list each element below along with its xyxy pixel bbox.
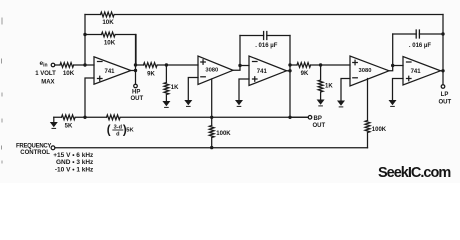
- svg-text:ein: ein: [40, 60, 48, 68]
- svg-text:SeekIC.com: SeekIC.com: [378, 165, 450, 181]
- junction dot U2 out: [238, 64, 241, 67]
- resistor R11 (3-d)/d 5K: [85, 115, 308, 120]
- U1 minus mark: [98, 61, 103, 63]
- svg-text:9K: 9K: [301, 71, 309, 77]
- node A junction dot: [83, 33, 86, 36]
- ground (U4 minus): [337, 101, 345, 106]
- svg-text:10K: 10K: [102, 19, 114, 26]
- terminal BP OUT: [308, 116, 312, 120]
- ground (R10 5K): [53, 117, 55, 122]
- svg-text:GND • 3 kHz: GND • 3 kHz: [56, 159, 94, 166]
- svg-text:5K: 5K: [126, 127, 134, 133]
- svg-text:(: (: [107, 124, 111, 136]
- wire BP bus to terminal: [290, 116, 308, 118]
- resistor R4 9K: [144, 63, 158, 68]
- svg-text:1K: 1K: [171, 85, 179, 91]
- wire top feedback rail: [85, 14, 443, 16]
- wire frequency control line: [55, 147, 368, 149]
- U3 minus mark: [253, 61, 258, 63]
- wire U4 - input bracket to ground: [341, 79, 350, 101]
- U2 minus mark: [201, 76, 206, 78]
- wire second feedback rail: [85, 35, 136, 65]
- ground (R5): [162, 101, 170, 106]
- op-amp U1 741: [94, 57, 131, 84]
- wire U3 out to R7: [290, 64, 350, 66]
- svg-text:MAX: MAX: [41, 80, 54, 86]
- capacitor C1 .016 uF top wire: [240, 35, 290, 37]
- U5 minus mark: [407, 61, 412, 63]
- svg-text:CONTROL: CONTROL: [20, 150, 50, 156]
- svg-text:-10 V • 1 kHz: -10 V • 1 kHz: [55, 167, 94, 174]
- svg-text:100K: 100K: [216, 131, 231, 137]
- summing node junction dot: [83, 63, 86, 66]
- junction dot U4 out: [391, 64, 394, 67]
- junction dot U1 out at tip: [134, 69, 137, 72]
- capacitor C1 plates: [264, 32, 267, 40]
- junction dot bias on BP bus: [210, 116, 213, 119]
- wire U2 - input bracket to ground: [188, 78, 198, 101]
- svg-text:HP: HP: [132, 90, 140, 96]
- svg-text:1 VOLT: 1 VOLT: [35, 71, 56, 77]
- node B junction dot: [165, 63, 168, 66]
- wire input to R3: [55, 64, 60, 66]
- svg-text:741: 741: [411, 69, 422, 75]
- junction dot divider node: [83, 116, 86, 119]
- wire U1 + input bracket to divider node: [85, 78, 94, 117]
- resistor R7 9K: [297, 63, 311, 68]
- U3 plus mark: [253, 77, 258, 82]
- wire U5 tip: [441, 70, 444, 72]
- resistor R5 1K (to ground): [164, 65, 169, 101]
- junction dot U3 out upper: [288, 63, 291, 66]
- wire U5 + input bracket to ground: [393, 79, 404, 101]
- wire U1 output vertical (feedback / HP tap): [135, 35, 137, 85]
- svg-text:100K: 100K: [372, 127, 387, 133]
- input terminal e_in: [51, 63, 55, 67]
- wire U4 bias input down: [367, 79, 369, 121]
- svg-text:741: 741: [257, 69, 268, 75]
- op-amp U5 741: [403, 57, 441, 86]
- op-amp U4 3080: [350, 56, 389, 86]
- svg-text:OUT: OUT: [130, 96, 143, 102]
- scan noise specks left edge: [1, 18, 4, 163]
- wire summing node into op-amp U1: [74, 64, 94, 66]
- wire U3 + input bracket to ground: [239, 79, 249, 100]
- wire U3 output vertical: [289, 36, 291, 118]
- svg-text:10K: 10K: [104, 40, 116, 47]
- svg-text:1K: 1K: [325, 84, 333, 90]
- U5 plus mark: [407, 76, 412, 81]
- resistor R2 10K (inner feedback): [102, 32, 116, 37]
- U1 plus mark: [98, 76, 103, 81]
- svg-text:. 016 µF: . 016 µF: [255, 43, 277, 49]
- resistor R8 1K (to ground): [318, 65, 323, 100]
- resistor R10 5K: [54, 115, 85, 120]
- wire U2 output to U3: [233, 36, 249, 71]
- svg-text:OUT: OUT: [438, 100, 451, 106]
- terminal FREQUENCY CONTROL: [51, 146, 55, 150]
- wire U4 output to U5: [389, 34, 403, 71]
- svg-text:OUT: OUT: [313, 123, 326, 129]
- junction dot U3 out tip: [288, 69, 291, 72]
- svg-text:LP: LP: [441, 92, 449, 98]
- ground (U5 plus): [389, 100, 397, 105]
- node C junction dot: [319, 63, 322, 66]
- junction dot U5 out tip: [441, 69, 444, 72]
- svg-text:+15 V • 6 kHz: +15 V • 6 kHz: [53, 152, 94, 159]
- svg-text:BP: BP: [314, 116, 322, 122]
- svg-text:. 016 µF: . 016 µF: [409, 43, 431, 49]
- junction dot C2 on right vertical: [441, 32, 444, 35]
- wire left drop from top rail to node A: [84, 15, 86, 35]
- junction dot R6 on control line: [210, 146, 213, 149]
- svg-text:5K: 5K: [65, 123, 73, 129]
- junction dot U1 out upper: [134, 63, 137, 66]
- U4 minus mark: [353, 77, 358, 79]
- wire U1 out to R4: [136, 64, 199, 66]
- resistor R1 10K (outer feedback): [101, 12, 115, 17]
- ground (U3 plus): [235, 100, 243, 105]
- resistor R6 100K (U2 bias): [209, 126, 214, 148]
- resistor R3 10K (input): [60, 63, 74, 68]
- wire U1 output tip to vertical: [131, 70, 136, 72]
- junction dot U3 out on BP bus: [288, 116, 291, 119]
- svg-text:d: d: [116, 132, 120, 138]
- svg-text:9K: 9K: [147, 72, 155, 78]
- svg-text:741: 741: [104, 69, 115, 75]
- value label (3-d)/d 5K (R11): [107, 124, 135, 137]
- ground (U2 minus): [184, 100, 192, 105]
- wire node A down to summing node: [84, 35, 86, 66]
- wire U3 output tip: [287, 70, 291, 72]
- capacitor C2 .016 uF top wire: [393, 33, 443, 35]
- wire U5 output right vertical: [442, 15, 444, 85]
- ground (R8): [317, 100, 325, 105]
- svg-text:3080: 3080: [359, 68, 372, 74]
- capacitor C2 plates: [416, 30, 419, 38]
- svg-text:10K: 10K: [63, 70, 75, 77]
- op-amp U2 3080: [198, 56, 233, 85]
- wire U2 bias input down: [211, 79, 213, 126]
- U4 plus mark: [353, 60, 358, 65]
- terminal HP OUT: [134, 84, 138, 88]
- svg-text:FREQUENCY: FREQUENCY: [16, 143, 51, 149]
- svg-text:3080: 3080: [205, 68, 218, 74]
- op-amp U3 741: [249, 56, 287, 86]
- terminal LP OUT: [441, 85, 445, 89]
- resistor R9 100K (U4 bias): [365, 121, 370, 148]
- U2 plus mark: [201, 60, 206, 65]
